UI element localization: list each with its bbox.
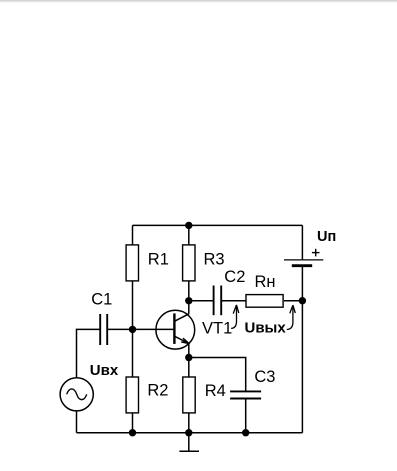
resistor R3 (183, 245, 195, 281)
resistor R1 (126, 245, 138, 281)
svg-text:C1: C1 (91, 290, 112, 308)
battery Un (284, 260, 323, 266)
battery plus sign (312, 249, 320, 257)
wire C1 left lead and left column (77, 329, 101, 377)
node base junction (129, 326, 136, 333)
wire C1 right lead (107, 328, 132, 330)
top border line (0, 0, 397, 4)
wire R3 top stub (188, 225, 190, 245)
wire right column to battery (301, 225, 303, 259)
ground (179, 433, 199, 452)
Uvyh right arrow (287, 305, 296, 329)
wire collector node to C2 (189, 300, 214, 302)
wire R2 top (132, 329, 134, 377)
wire battery to output node (301, 266, 303, 301)
wire Rn to output node (284, 300, 302, 302)
node top junction (185, 222, 192, 229)
capacitor C1 (100, 314, 107, 345)
node collector junction (185, 297, 192, 304)
wire C3 bottom stub (245, 399, 247, 433)
wire C2 to Rn (221, 300, 245, 302)
wire emitter node to C3 (189, 358, 246, 392)
wire output node down right side (301, 301, 303, 433)
wire collector vertical (188, 301, 190, 314)
wire top rail (133, 224, 303, 226)
svg-text:R1: R1 (148, 250, 169, 268)
wire source bottom stub (76, 411, 78, 433)
wire R3 bottom to collector node (188, 281, 190, 301)
transistor VT1 (156, 310, 195, 349)
resistor Rn (load) (246, 295, 283, 308)
wire R1 top stub (132, 225, 134, 245)
node R2 bottom junction (129, 429, 136, 436)
node emitter junction (185, 354, 192, 361)
wire base (133, 328, 175, 330)
wire R1 bottom to base node (132, 281, 134, 330)
capacitor C3 (230, 391, 261, 398)
capacitor C2 (214, 286, 222, 316)
wire bottom rail (77, 432, 303, 434)
wire R2 bottom stub (132, 413, 134, 433)
svg-text:Uвых: Uвых (245, 320, 287, 337)
wire R4 bottom stub (188, 413, 190, 433)
svg-text:C2: C2 (224, 268, 245, 286)
svg-text:Uвх: Uвх (90, 362, 119, 379)
svg-text:Uп: Uп (317, 229, 336, 245)
resistor R2 (126, 377, 138, 413)
Uvyh left arrow (231, 305, 239, 329)
svg-text:R2: R2 (147, 382, 168, 400)
svg-text:R3: R3 (204, 250, 225, 268)
wire emitter vertical to R4 (188, 344, 190, 378)
node output junction (299, 297, 306, 304)
svg-text:Rн: Rн (255, 273, 276, 291)
node C3 bottom junction (242, 429, 249, 436)
svg-text:R4: R4 (205, 382, 226, 400)
svg-text:C3: C3 (254, 368, 275, 386)
node ground junction (185, 429, 192, 436)
svg-text:VT1: VT1 (202, 319, 232, 337)
signal source Uvx (sine generator) (60, 378, 93, 411)
resistor R4 (183, 377, 195, 413)
